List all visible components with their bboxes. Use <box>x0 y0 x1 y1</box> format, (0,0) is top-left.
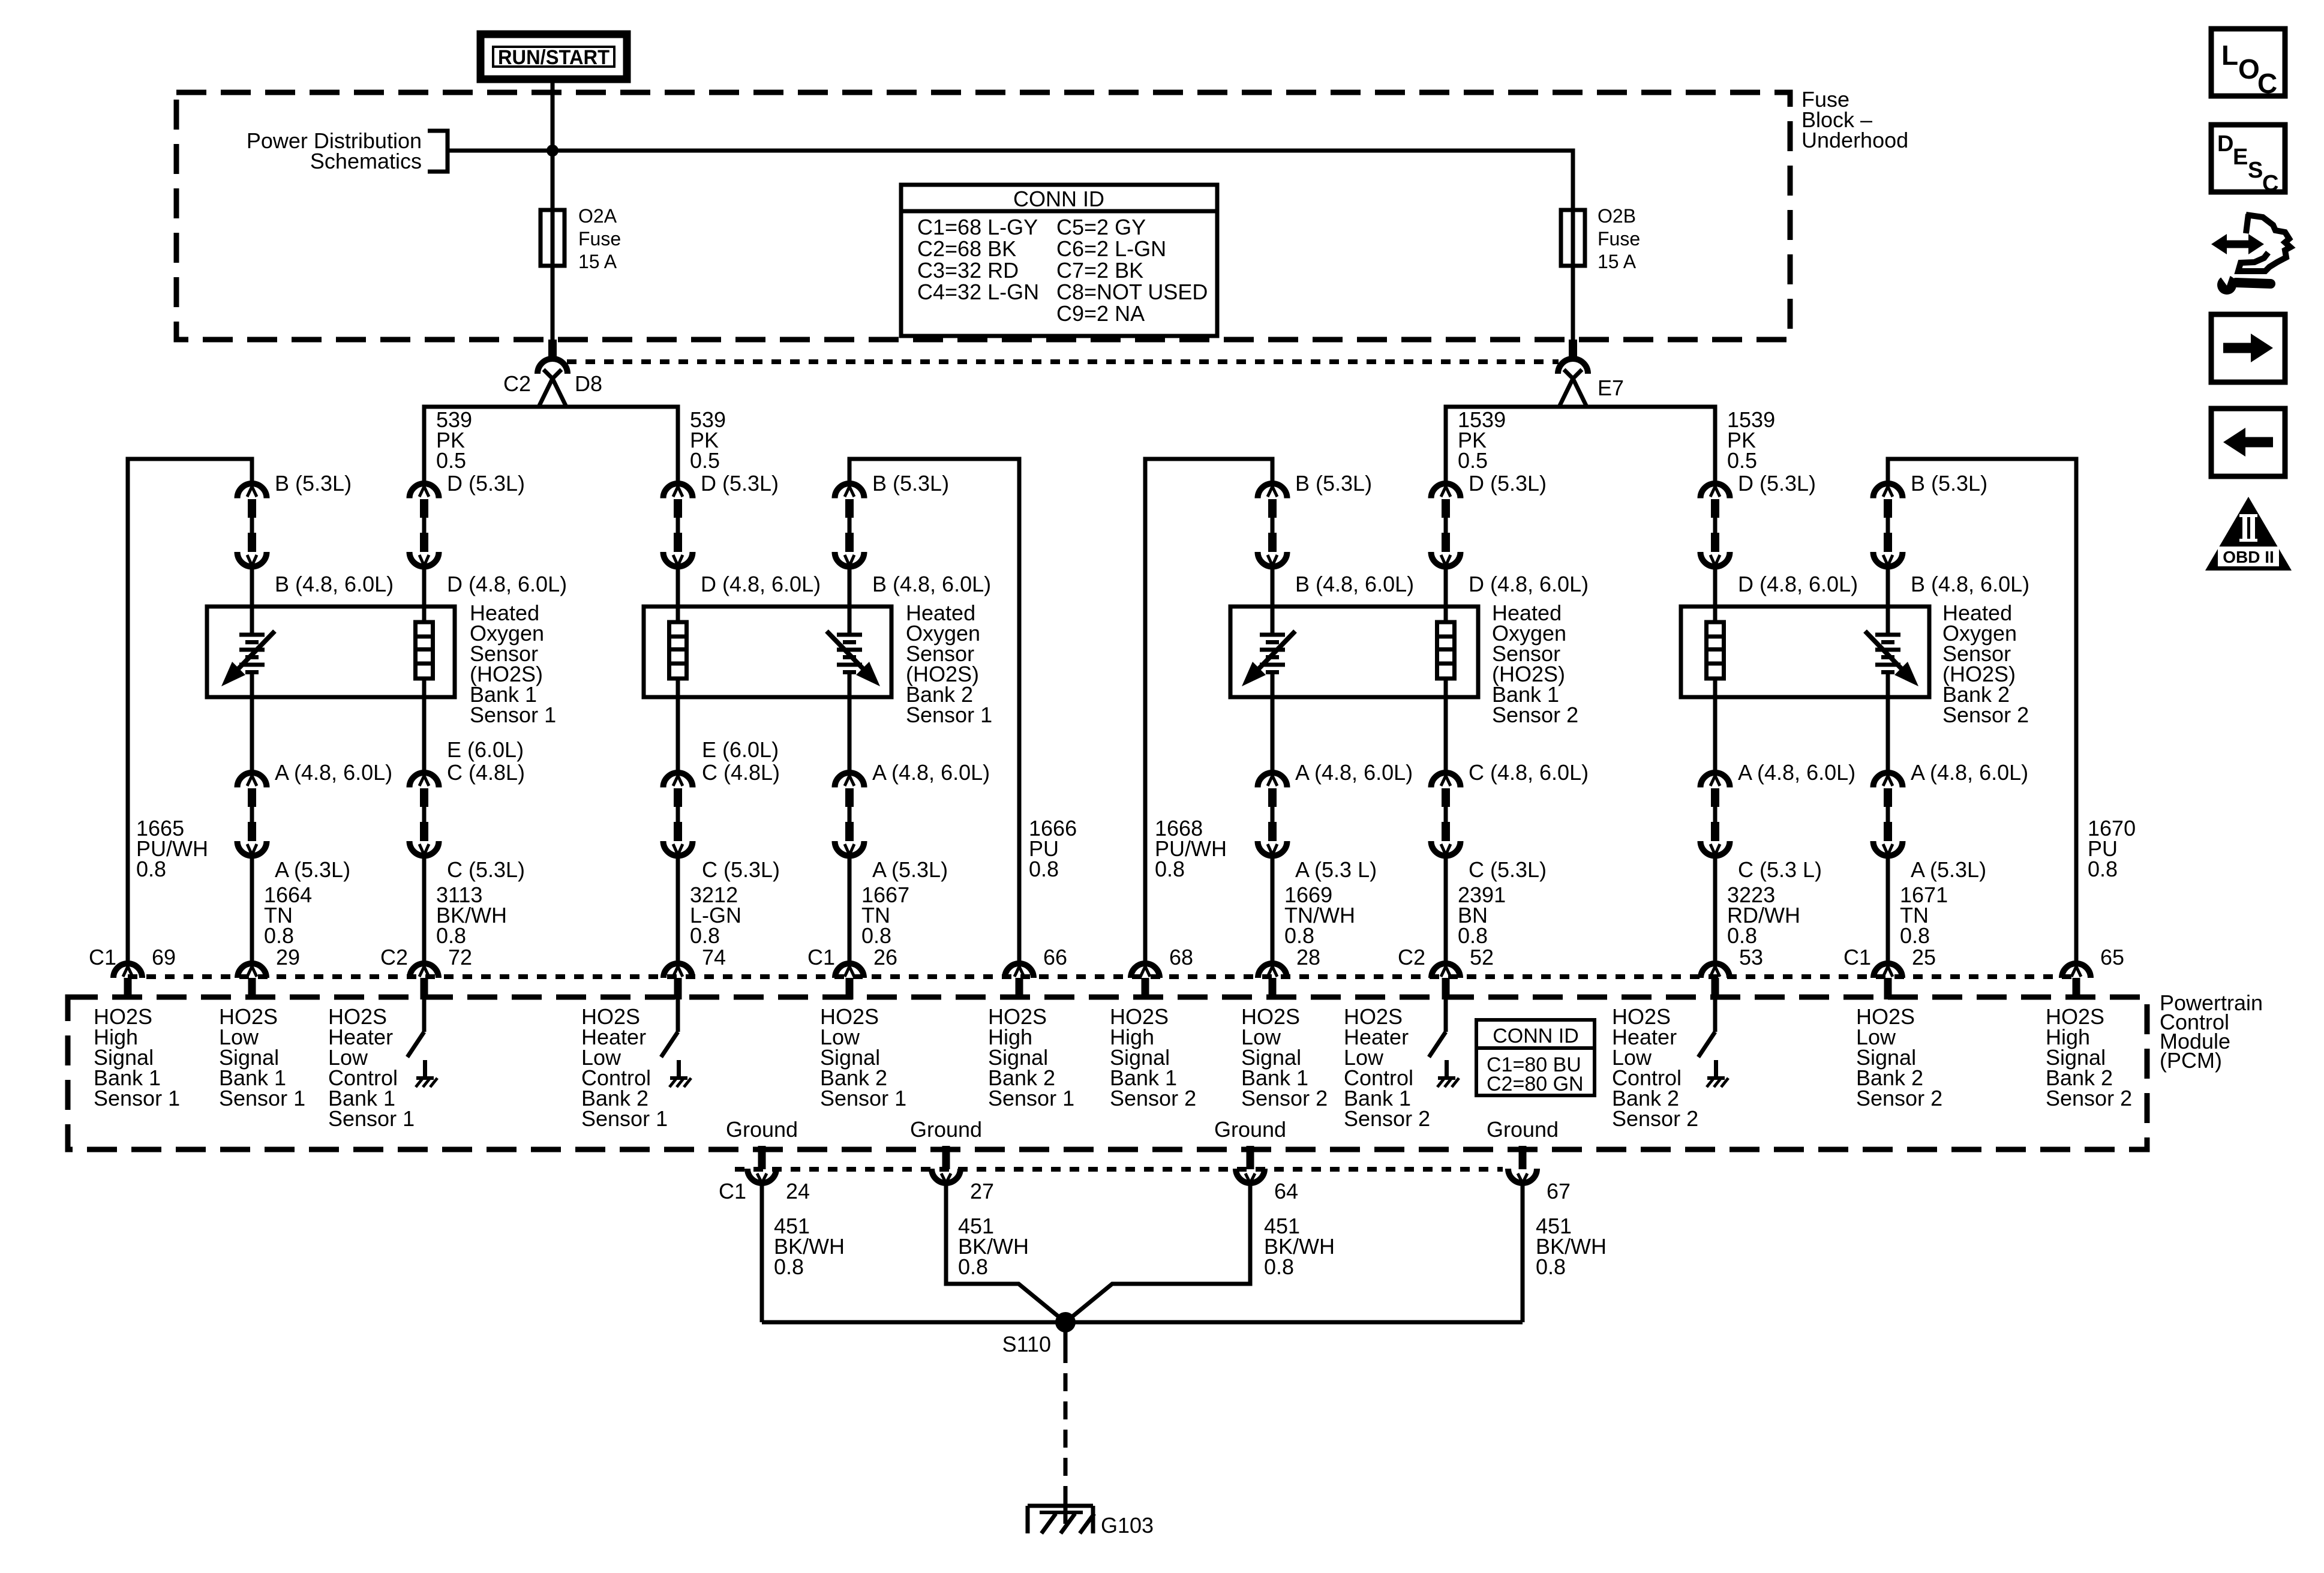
svg-text:Sensor 2: Sensor 2 <box>2046 1086 2132 1110</box>
PCM pin 52 <box>1431 963 1460 999</box>
wire 451 BK/WH pin 27 <box>946 1183 1065 1322</box>
svg-text:D (4.8, 6.0L): D (4.8, 6.0L) <box>1469 572 1589 596</box>
svg-text:Sensor 1: Sensor 1 <box>988 1086 1074 1110</box>
svg-text:15 A: 15 A <box>578 251 617 272</box>
svg-text:B (4.8, 6.0L): B (4.8, 6.0L) <box>275 572 394 596</box>
PCM ground pin 64 <box>1236 1146 1265 1183</box>
svg-text:D (5.3L): D (5.3L) <box>701 471 779 496</box>
wire HO2S B2S2 high signal bus <box>1888 459 2076 963</box>
svg-text:CONN ID: CONN ID <box>1013 187 1104 211</box>
svg-text:D (4.8, 6.0L): D (4.8, 6.0L) <box>701 572 821 596</box>
svg-text:Sensor 2: Sensor 2 <box>1110 1086 1196 1110</box>
wire 451 BK/WH pin 67 <box>1521 1183 1525 1322</box>
svg-text:26: 26 <box>873 945 897 969</box>
inline connector pair D (5.3L)/D (4.8,6.0L) heater B2S1 <box>663 484 693 567</box>
inline connector pair A (4.8,6.0L)/C (5.3 L) heater B2S2 <box>1701 773 1730 856</box>
svg-text:Sensor 1: Sensor 1 <box>906 703 992 727</box>
svg-text:Sensor 2: Sensor 2 <box>1241 1086 1328 1110</box>
svg-text:E7: E7 <box>1598 376 1624 400</box>
wire 1539 PK right branch to HO2S B2S2 heater <box>1561 407 1715 484</box>
wire HO2S B1S2 signal low out <box>1271 674 1275 773</box>
connector C2 D8 X split <box>544 370 566 407</box>
PCM pin 53 <box>1701 963 1730 999</box>
wire HO2S B1S2 high signal bus <box>1145 459 1272 963</box>
PCM pin 65 <box>2062 963 2091 999</box>
wire HO2S B2S2 signal low out <box>1886 674 1890 773</box>
svg-text:D (4.8, 6.0L): D (4.8, 6.0L) <box>447 572 567 596</box>
svg-text:64: 64 <box>1274 1179 1298 1203</box>
svg-text:0.8: 0.8 <box>1155 857 1185 881</box>
wire 451 BK/WH pin 64 <box>1065 1183 1250 1322</box>
svg-text:C3=32 RD: C3=32 RD <box>917 258 1019 283</box>
svg-text:69: 69 <box>152 945 176 969</box>
svg-text:C4=32 L-GN: C4=32 L-GN <box>917 280 1039 304</box>
svg-text:C: C <box>2257 68 2277 99</box>
wire HO2S B2S1 signal low out <box>848 674 852 773</box>
svg-text:OBD II: OBD II <box>2223 548 2274 566</box>
svg-text:Ground: Ground <box>726 1117 798 1142</box>
sensor box HO2S Bank 1 Sensor 2 <box>1230 607 1478 697</box>
switch heater low control driver B2S1 <box>661 997 691 1087</box>
svg-text:A (4.8, 6.0L): A (4.8, 6.0L) <box>872 760 990 785</box>
svg-text:A (5.3L): A (5.3L) <box>1911 857 1986 882</box>
svg-text:D8: D8 <box>575 371 602 396</box>
svg-text:C (4.8L): C (4.8L) <box>447 760 525 785</box>
svg-text:Sensor 1: Sensor 1 <box>820 1086 906 1110</box>
wire 1669 TN/WH to PCM pin 28 <box>1271 856 1275 963</box>
svg-text:C: C <box>2262 171 2278 196</box>
PCM ground pin 67 <box>1508 1146 1537 1183</box>
svg-text:25: 25 <box>1912 945 1936 969</box>
svg-text:G103: G103 <box>1101 1513 1154 1538</box>
PCM pin 66 <box>1005 963 1034 999</box>
svg-text:Ground: Ground <box>910 1117 982 1142</box>
svg-text:O2A: O2A <box>578 205 617 227</box>
wire into HO2S B2S1 heater <box>676 567 680 622</box>
svg-text:Fuse: Fuse <box>1598 228 1640 250</box>
svg-text:B (5.3L): B (5.3L) <box>275 471 352 496</box>
wire HO2S B2S1 high signal bus <box>849 459 1019 963</box>
svg-text:0.8: 0.8 <box>861 923 891 948</box>
node Power Distribution Schematics bracket <box>428 131 448 172</box>
svg-text:S110: S110 <box>1002 1332 1051 1356</box>
svg-text:Sensor 2: Sensor 2 <box>1942 703 2029 727</box>
svg-text:0.8: 0.8 <box>958 1254 988 1279</box>
PCM pin 26 <box>835 963 864 999</box>
sensing element HO2S B2S2 <box>1865 631 1918 686</box>
inline connector pair D (5.3L)/D (4.8,6.0L) heater B1S1 <box>410 484 439 567</box>
svg-text:Ground: Ground <box>1214 1117 1286 1142</box>
svg-text:68: 68 <box>1169 945 1193 969</box>
svg-text:Schematics: Schematics <box>310 149 422 173</box>
PCM connector row dotted line <box>128 974 2076 979</box>
inline connector pair D (5.3L)/D (4.8,6.0L) heater B1S2 <box>1431 484 1461 567</box>
sensor box HO2S Bank 1 Sensor 1 <box>207 607 455 697</box>
svg-text:72: 72 <box>448 945 472 969</box>
wire from RUN/START down through O2A fuse <box>551 79 555 340</box>
wire into HO2S B1S2 heater <box>1444 567 1448 622</box>
wire ground bus to splice <box>762 1320 1523 1325</box>
svg-text:C1: C1 <box>719 1179 746 1203</box>
heater element HO2S B1S2 <box>1437 622 1455 679</box>
svg-text:D (5.3L): D (5.3L) <box>1469 471 1547 496</box>
svg-text:(PCM): (PCM) <box>2160 1048 2222 1073</box>
wire 539 PK left branch to HO2S B1S1 heater <box>424 407 565 484</box>
fuse O2B 15 A <box>1561 210 1585 266</box>
svg-text:Sensor 1: Sensor 1 <box>328 1106 415 1131</box>
svg-text:52: 52 <box>1470 945 1494 969</box>
PCM ground row dotted line <box>735 1167 1503 1172</box>
svg-text:A (5.3L): A (5.3L) <box>275 857 350 882</box>
svg-text:B (5.3L): B (5.3L) <box>1295 471 1372 496</box>
connector C2 D8 stub <box>548 340 557 361</box>
svg-text:C1: C1 <box>807 945 835 969</box>
wire 539 PK right branch to HO2S B2S1 heater <box>541 407 678 484</box>
svg-text:C (5.3L): C (5.3L) <box>702 857 780 882</box>
svg-text:0.5: 0.5 <box>436 448 466 473</box>
wire into HO2S B1S1 sensing element <box>250 567 254 633</box>
icon arrow right box <box>2211 314 2285 382</box>
svg-text:A (5.3 L): A (5.3 L) <box>1295 857 1377 882</box>
junction at RUN/START feed <box>547 145 559 157</box>
icon DESC box <box>2211 125 2285 192</box>
PCM ground pin 24 <box>747 1146 776 1183</box>
wire power distribution horizontal feed to O2B <box>448 151 1573 340</box>
PCM pin 29 <box>238 963 266 999</box>
wire 1667 TN to PCM pin 26 <box>848 856 852 963</box>
svg-text:15 A: 15 A <box>1598 251 1637 272</box>
svg-text:0.8: 0.8 <box>136 857 166 881</box>
svg-text:29: 29 <box>276 945 300 969</box>
svg-text:Sensor 1: Sensor 1 <box>94 1086 180 1110</box>
svg-text:C8=NOT USED: C8=NOT USED <box>1056 280 1208 304</box>
sensing element HO2S B2S1 <box>827 631 880 686</box>
inline connector pair A (4.8,6.0L)/A (5.3L) signal B1S1 <box>238 773 267 856</box>
svg-text:Sensor 2: Sensor 2 <box>1344 1106 1430 1131</box>
svg-text:C2=80 GN: C2=80 GN <box>1487 1073 1584 1095</box>
wire 1664 TN to PCM pin 29 <box>250 856 254 963</box>
svg-text:67: 67 <box>1547 1179 1571 1203</box>
inline connector pair B (5.3L)/B (4.8,6.0L) signal B1S2 <box>1258 484 1287 567</box>
inline connector pair A (4.8,6.0L)/A (5.3 L) signal B1S2 <box>1258 773 1287 856</box>
svg-text:C (4.8L): C (4.8L) <box>702 760 780 785</box>
svg-text:E (6.0L): E (6.0L) <box>702 737 779 762</box>
svg-text:S: S <box>2248 158 2263 183</box>
wire S110 to G103 <box>1064 1322 1068 1345</box>
svg-text:Sensor 2: Sensor 2 <box>1612 1106 1698 1131</box>
wire HO2S B1S2 heater low out <box>1444 679 1448 773</box>
wire into HO2S B2S2 sensing element <box>1886 567 1890 633</box>
svg-text:C (4.8, 6.0L): C (4.8, 6.0L) <box>1469 760 1589 785</box>
wire HO2S B2S2 heater low out <box>1713 679 1718 773</box>
svg-text:Sensor 2: Sensor 2 <box>1492 703 1578 727</box>
svg-text:C2: C2 <box>1398 945 1425 969</box>
splice S110 <box>1055 1312 1076 1332</box>
svg-text:A (4.8, 6.0L): A (4.8, 6.0L) <box>1295 760 1413 785</box>
wire into HO2S B2S2 heater <box>1713 567 1718 622</box>
icon OBD II triangle <box>2205 497 2292 571</box>
wire 451 BK/WH pin 24 <box>760 1183 764 1322</box>
svg-text:A (4.8, 6.0L): A (4.8, 6.0L) <box>1738 760 1855 785</box>
svg-text:O2B: O2B <box>1598 205 1636 227</box>
svg-text:O: O <box>2238 53 2260 85</box>
inline connector pair B (5.3L)/B (4.8,6.0L) signal B2S1 <box>835 484 864 567</box>
svg-text:D (4.8, 6.0L): D (4.8, 6.0L) <box>1738 572 1858 596</box>
svg-text:C1=68 L-GY: C1=68 L-GY <box>917 215 1038 239</box>
svg-text:A (4.8, 6.0L): A (4.8, 6.0L) <box>275 760 392 785</box>
wire 2391 BN to PCM pin 52 <box>1444 856 1448 963</box>
icon LOC box <box>2211 29 2285 96</box>
fuse O2A 15 A <box>541 210 565 266</box>
svg-text:C (5.3 L): C (5.3 L) <box>1738 857 1822 882</box>
svg-text:24: 24 <box>786 1179 810 1203</box>
svg-text:Sensor 1: Sensor 1 <box>219 1086 305 1110</box>
svg-text:Underhood: Underhood <box>1801 128 1908 152</box>
wire 1539 PK left branch to HO2S B1S2 heater <box>1446 407 1585 484</box>
connector row dotted line at fuse block <box>567 359 1559 364</box>
connector E7 dome <box>1558 359 1588 374</box>
svg-text:RUN/START: RUN/START <box>498 46 609 69</box>
wire 1671 TN to PCM pin 25 <box>1886 856 1890 963</box>
svg-text:0.5: 0.5 <box>1458 448 1488 473</box>
PCM pin 25 <box>1873 963 1902 999</box>
wire 3223 RD/WH to PCM pin 53 <box>1713 856 1718 963</box>
inline connector pair A (4.8,6.0L)/A (5.3L) signal B2S2 <box>1873 773 1903 856</box>
svg-text:0.8: 0.8 <box>1900 923 1930 948</box>
PCM ground pin 27 <box>932 1146 960 1183</box>
svg-text:C7=2 BK: C7=2 BK <box>1056 258 1143 283</box>
svg-text:B (5.3L): B (5.3L) <box>872 471 949 496</box>
svg-text:0.8: 0.8 <box>690 923 720 948</box>
svg-text:D (5.3L): D (5.3L) <box>447 471 525 496</box>
inline connector pair C (4.8,6.0L)/C (5.3L) heater B1S2 <box>1431 773 1461 856</box>
svg-text:E (6.0L): E (6.0L) <box>447 737 524 762</box>
wire into HO2S B1S2 sensing element <box>1271 567 1275 633</box>
svg-text:A (5.3L): A (5.3L) <box>872 857 948 882</box>
svg-text:0.8: 0.8 <box>774 1254 804 1279</box>
svg-text:CONN ID: CONN ID <box>1493 1025 1579 1047</box>
connector C2 D8 dome <box>538 359 568 374</box>
wire HO2S B1S1 heater low out <box>422 679 427 773</box>
svg-text:0.5: 0.5 <box>690 448 720 473</box>
svg-text:B (4.8, 6.0L): B (4.8, 6.0L) <box>1295 572 1414 596</box>
svg-text:0.5: 0.5 <box>1727 448 1757 473</box>
fuse block dashed box (Fuse Block - Underhood) <box>176 92 1790 340</box>
svg-text:74: 74 <box>702 945 726 969</box>
wire 3212 L-GN to PCM pin 74 <box>676 856 680 963</box>
svg-text:L: L <box>2221 40 2238 71</box>
connector E7 stub <box>1569 340 1577 361</box>
heater element HO2S B2S1 <box>669 622 687 679</box>
svg-text:0.8: 0.8 <box>436 923 466 948</box>
svg-text:66: 66 <box>1043 945 1067 969</box>
inline connector pair E (6.0L)/C (5.3L) heater B1S1 <box>410 773 439 856</box>
svg-text:0.8: 0.8 <box>1727 923 1757 948</box>
switch heater low control driver B2S2 <box>1698 997 1728 1087</box>
svg-text:53: 53 <box>1739 945 1763 969</box>
table CONN ID fuse block <box>901 185 1217 336</box>
PCM pin 28 <box>1258 963 1287 999</box>
wire HO2S B1S1 high signal bus <box>128 459 252 963</box>
wire 3113 BK/WH to PCM pin 72 <box>422 856 427 963</box>
svg-text:Sensor 1: Sensor 1 <box>581 1106 668 1131</box>
PCM dashed box Powertrain Control Module <box>68 997 2147 1149</box>
svg-text:C9=2 NA: C9=2 NA <box>1056 301 1145 326</box>
PCM pin 74 <box>663 963 692 999</box>
icon diagnostic wrench <box>2217 275 2236 295</box>
svg-text:0.8: 0.8 <box>1458 923 1488 948</box>
ground G103 <box>1028 1504 1093 1508</box>
svg-text:Sensor 2: Sensor 2 <box>1856 1086 1942 1110</box>
table CONN ID PCM <box>1476 1020 1595 1095</box>
inline connector pair B (5.3L)/B (4.8,6.0L) signal B2S2 <box>1873 484 1903 567</box>
switch heater low control driver B1S1 <box>407 997 437 1087</box>
icon arrow left box <box>2211 409 2285 476</box>
sensing element HO2S B1S2 <box>1242 631 1295 686</box>
sensor box HO2S Bank 2 Sensor 1 <box>644 607 891 697</box>
svg-text:Ground: Ground <box>1487 1117 1559 1142</box>
svg-text:C1: C1 <box>89 945 116 969</box>
svg-text:0.8: 0.8 <box>1536 1254 1566 1279</box>
svg-text:A (4.8, 6.0L): A (4.8, 6.0L) <box>1911 760 2028 785</box>
svg-text:B (5.3L): B (5.3L) <box>1911 471 1987 496</box>
svg-text:28: 28 <box>1296 945 1320 969</box>
svg-text:C (5.3L): C (5.3L) <box>447 857 525 882</box>
svg-text:0.8: 0.8 <box>1264 1254 1294 1279</box>
svg-text:0.8: 0.8 <box>1284 923 1314 948</box>
wire into HO2S B2S1 sensing element <box>848 567 852 633</box>
icon diagnostic outline <box>2246 214 2248 233</box>
wire HO2S B1S1 signal low out <box>250 674 254 773</box>
svg-text:E: E <box>2233 145 2248 170</box>
svg-text:C1: C1 <box>1843 945 1871 969</box>
PCM pin 68 <box>1131 963 1160 999</box>
sensor box HO2S Bank 2 Sensor 2 <box>1681 607 1929 697</box>
svg-text:Fuse: Fuse <box>578 228 621 250</box>
connector E7 X split <box>1564 370 1587 407</box>
svg-text:C2: C2 <box>380 945 408 969</box>
svg-text:27: 27 <box>970 1179 994 1203</box>
inline connector pair D (5.3L)/D (4.8,6.0L) heater B2S2 <box>1701 484 1730 567</box>
svg-text:65: 65 <box>2100 945 2124 969</box>
inline connector pair E (6.0L)/C (5.3L) heater B2S1 <box>663 773 693 856</box>
svg-text:C2=68 BK: C2=68 BK <box>917 236 1016 261</box>
svg-text:0.8: 0.8 <box>264 923 294 948</box>
svg-text:0.8: 0.8 <box>2088 857 2118 881</box>
svg-text:D (5.3L): D (5.3L) <box>1738 471 1816 496</box>
switch heater low control driver B1S2 <box>1429 997 1459 1087</box>
svg-text:B (4.8, 6.0L): B (4.8, 6.0L) <box>1911 572 2029 596</box>
svg-text:C (5.3L): C (5.3L) <box>1469 857 1547 882</box>
svg-text:Sensor 1: Sensor 1 <box>470 703 556 727</box>
PCM pin 69 <box>113 963 142 999</box>
heater element HO2S B2S2 <box>1707 622 1724 679</box>
sensing element HO2S B1S1 <box>221 631 275 686</box>
svg-text:B (4.8, 6.0L): B (4.8, 6.0L) <box>872 572 991 596</box>
PCM pin 72 <box>410 963 439 999</box>
svg-text:0.8: 0.8 <box>1029 857 1059 881</box>
svg-text:C2: C2 <box>503 371 531 396</box>
svg-text:C6=2 L-GN: C6=2 L-GN <box>1056 236 1166 261</box>
wire into HO2S B1S1 heater <box>422 567 427 622</box>
wire HO2S B2S1 heater low out <box>676 679 680 773</box>
power source RUN/START <box>481 34 627 79</box>
inline connector pair B (5.3L)/B (4.8,6.0L) signal B1S1 <box>238 484 267 567</box>
icon diagnostic double arrow <box>2224 241 2251 248</box>
svg-text:D: D <box>2217 131 2233 157</box>
inline connector pair A (4.8,6.0L)/A (5.3L) signal B2S1 <box>835 773 864 856</box>
svg-text:C5=2 GY: C5=2 GY <box>1056 215 1146 239</box>
